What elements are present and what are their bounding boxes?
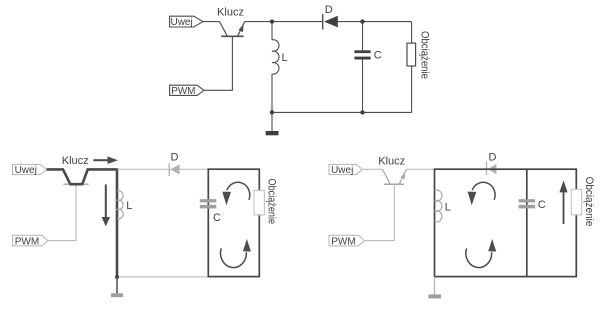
diode D (phase 1, gray) (169, 163, 179, 176)
wire Uwej to transistor (phase 2, gray) (362, 168, 382, 170)
input flag PWM (phase 1, gray) (13, 235, 48, 247)
svg-text:Obciążenie: Obciążenie (583, 177, 595, 227)
wire diode to output corner (338, 21, 412, 23)
load resistor Obciazenie (top) (407, 22, 416, 113)
wire transistor base to PWM (phase 1, gray) (48, 184, 76, 240)
svg-text:Obciążenie: Obciążenie (266, 179, 278, 225)
transistor (phase 1, gray base symbol) (63, 183, 88, 185)
svg-text:D: D (325, 4, 333, 16)
wire transistor base to PWM node (204, 36, 232, 90)
label L (top) (282, 52, 288, 64)
svg-text:PWM: PWM (15, 236, 39, 247)
diode D (phase 2, gray, on top edge) (487, 162, 497, 176)
inductor L (phase 2, gray, on left edge) (435, 190, 442, 222)
svg-text:PWM: PWM (171, 86, 195, 97)
input flag Uwej (170, 16, 203, 28)
wire Uwej to transistor emitter (203, 21, 220, 23)
transistor Q1 (Klucz) (220, 22, 245, 37)
label D (phase 1) (171, 152, 179, 164)
capacitor C (phase 1, gray, on left edge) (200, 199, 217, 208)
svg-text:C: C (213, 212, 221, 224)
svg-text:C: C (374, 50, 382, 62)
svg-text:L: L (445, 201, 451, 213)
load resistor (phase 1, gray, on right edge) (254, 190, 264, 215)
wire collector to node A (245, 21, 323, 23)
thick current path: Uwej through transistor down inductor branch (47, 169, 117, 277)
label Obciazenie (phase 1, rotated) (266, 179, 278, 225)
svg-text:Uwej: Uwej (15, 165, 37, 176)
switch-on direction arrow next to Klucz (93, 156, 118, 164)
label D (phase 2) (489, 151, 497, 163)
junction dot bottom (phase 1) (115, 275, 119, 279)
transistor (phase 2, gray) (382, 169, 406, 184)
output loop rectangle (phase 1) (208, 169, 259, 276)
label Klucz (switch) (217, 7, 244, 19)
wire transistor base to PWM (phase 2, gray) (364, 184, 394, 240)
capacitor C (top) (354, 22, 370, 113)
svg-text:Klucz: Klucz (217, 7, 244, 19)
inductor L (top) (272, 22, 279, 113)
circulating current arrow upper (phase 2) (468, 182, 495, 205)
circulating current arrow lower (phase 1) (221, 239, 251, 268)
node B junction dot (cap top) (360, 19, 364, 23)
label Klucz (phase 1) (62, 155, 89, 167)
circulating current arrow lower (phase 2) (466, 239, 496, 268)
divider wire capacitor branch (phase 2) (526, 169, 528, 276)
junction dot bottom left (top circuit) (270, 110, 274, 114)
inductor L (phase 1, gray) (117, 191, 123, 219)
svg-text:L: L (126, 200, 132, 212)
ground (phase 2, gray) (428, 277, 441, 299)
svg-text:Klucz: Klucz (378, 155, 405, 167)
input flag PWM (phase 2, gray) (329, 235, 364, 247)
capacitor C (phase 2, gray, on divider) (519, 199, 536, 208)
svg-text:L: L (282, 52, 288, 64)
diode D (top) (323, 14, 338, 29)
label L (phase 2) (445, 201, 451, 213)
load resistor (phase 2, gray, on right edge) (571, 189, 581, 215)
wire transistor collector to loop (phase 2, gray) (406, 168, 434, 170)
label D (top) (325, 4, 333, 16)
label C (phase 2) (538, 199, 546, 211)
svg-text:C: C (538, 199, 546, 211)
node A junction dot (270, 19, 274, 23)
current direction down arrow (inductor branch) (102, 184, 110, 226)
input flag PWM (170, 85, 204, 97)
label L (phase 1) (126, 200, 132, 212)
input flag Uwej (phase 2, gray) (329, 164, 362, 176)
svg-text:PWM: PWM (331, 236, 355, 247)
svg-text:Uwej: Uwej (331, 165, 353, 176)
svg-text:D: D (489, 151, 497, 163)
label Obciazenie (top, rotated) (419, 31, 431, 79)
ground (phase 1, gray) (111, 277, 123, 297)
label C (phase 1) (213, 212, 221, 224)
bottom rail wire (top circuit) (272, 111, 412, 113)
junction dot bottom cap (top circuit) (360, 110, 364, 114)
label C (top) (374, 50, 382, 62)
main loop rectangle (phase 2) (435, 169, 577, 276)
svg-text:Obciążenie: Obciążenie (419, 31, 431, 79)
input flag Uwej (phase 1, gray) (13, 164, 47, 176)
circulating current arrow upper (phase 1) (222, 182, 249, 205)
bottom wire to output loop (phase 1, gray) (117, 276, 208, 278)
svg-text:D: D (171, 152, 179, 164)
svg-text:Uwej: Uwej (170, 17, 192, 28)
ground (top circuit) (266, 112, 279, 135)
svg-text:Klucz: Klucz (62, 155, 89, 167)
label Klucz (phase 2) (378, 155, 405, 167)
top wire to diode and output loop (phase 1, gray) (117, 168, 208, 170)
label Obciazenie (phase 2, rotated) (583, 177, 595, 227)
load current up arrow (phase 2) (559, 180, 567, 224)
